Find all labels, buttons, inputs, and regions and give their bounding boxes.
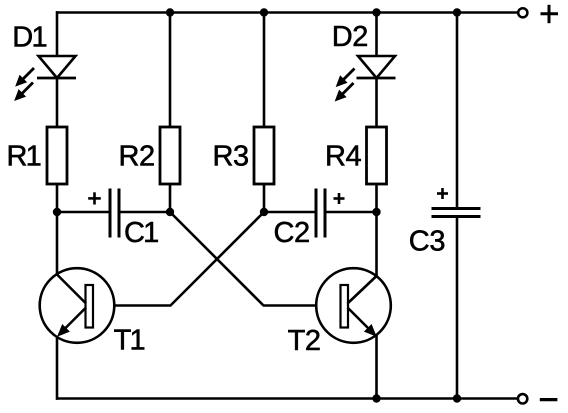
wire R3 bottom to C2 node (263, 184, 266, 212)
wire top supply rail (56, 11, 518, 14)
wire R4 bottom to T2 collector (375, 184, 378, 276)
resistor R3 (254, 127, 274, 184)
node R2/C1/crossover junction (166, 208, 174, 216)
wire T2 emitter to bottom rail (375, 335, 378, 399)
wire third branch: top rail to R3 (263, 13, 266, 128)
wire crossover: C1 node to T2 base (170, 212, 341, 306)
LED D1 (15, 56, 76, 100)
wire C3 bottom to bottom rail (456, 217, 459, 399)
terminal minus (bottom right) (518, 394, 527, 403)
svg-text:C2: C2 (274, 217, 310, 249)
minus sign (540, 398, 558, 401)
svg-text:R4: R4 (325, 140, 362, 172)
svg-text:C3: C3 (409, 225, 445, 257)
node top rail R3 (260, 8, 268, 16)
svg-text:R3: R3 (213, 140, 249, 172)
wire C2 right lead (327, 211, 377, 214)
svg-text:D2: D2 (332, 21, 368, 53)
node R4/C2/T2 junction (372, 208, 380, 216)
svg-text:R1: R1 (7, 140, 41, 172)
svg-text:R2: R2 (119, 140, 155, 172)
capacitor C2 (316, 189, 345, 238)
svg-text:T2: T2 (288, 325, 321, 357)
wire C1 left lead (57, 211, 109, 214)
wire T1 emitter to bottom rail (56, 337, 59, 400)
wire D2 cathode to R4 (375, 78, 378, 127)
plus sign (541, 5, 559, 23)
wire C1 right lead (121, 211, 171, 214)
resistor R1 (47, 127, 67, 184)
wire D1 cathode to R1 (56, 78, 59, 127)
svg-text:D1: D1 (12, 21, 46, 53)
terminal plus (top right) (518, 8, 527, 17)
node bottom rail T2 (372, 394, 380, 402)
capacitor C3 (432, 188, 481, 217)
wire C2 left lead (264, 211, 315, 214)
transistor T2 (316, 268, 391, 343)
node R1/C1/T1 junction (53, 208, 61, 216)
wire second branch: top rail to R2 (169, 13, 172, 128)
wire left branch: top rail to D1 anode (56, 11, 59, 57)
wire R2 bottom to C1 node (169, 184, 172, 212)
resistor R2 (160, 127, 180, 184)
transistor T1 (40, 268, 115, 343)
node top rail C3 (453, 8, 461, 16)
svg-text:T1: T1 (114, 325, 145, 357)
node bottom rail C3 (453, 394, 461, 402)
wire bottom supply rail (56, 397, 518, 400)
node top rail D2 (372, 8, 380, 16)
wire C3 branch: top rail to C3 (456, 13, 459, 209)
wire crossover: C2 node to T1 base (93, 212, 264, 306)
node R3/C2/crossover junction (260, 208, 268, 216)
capacitor C1 (88, 189, 119, 238)
node top rail R2 (166, 8, 174, 16)
wire R1 bottom to T1 collector (56, 184, 59, 275)
wire fourth branch: top rail to D2 anode (375, 13, 378, 58)
resistor R4 (367, 127, 387, 184)
LED D2 (336, 56, 396, 101)
svg-text:C1: C1 (124, 217, 158, 249)
